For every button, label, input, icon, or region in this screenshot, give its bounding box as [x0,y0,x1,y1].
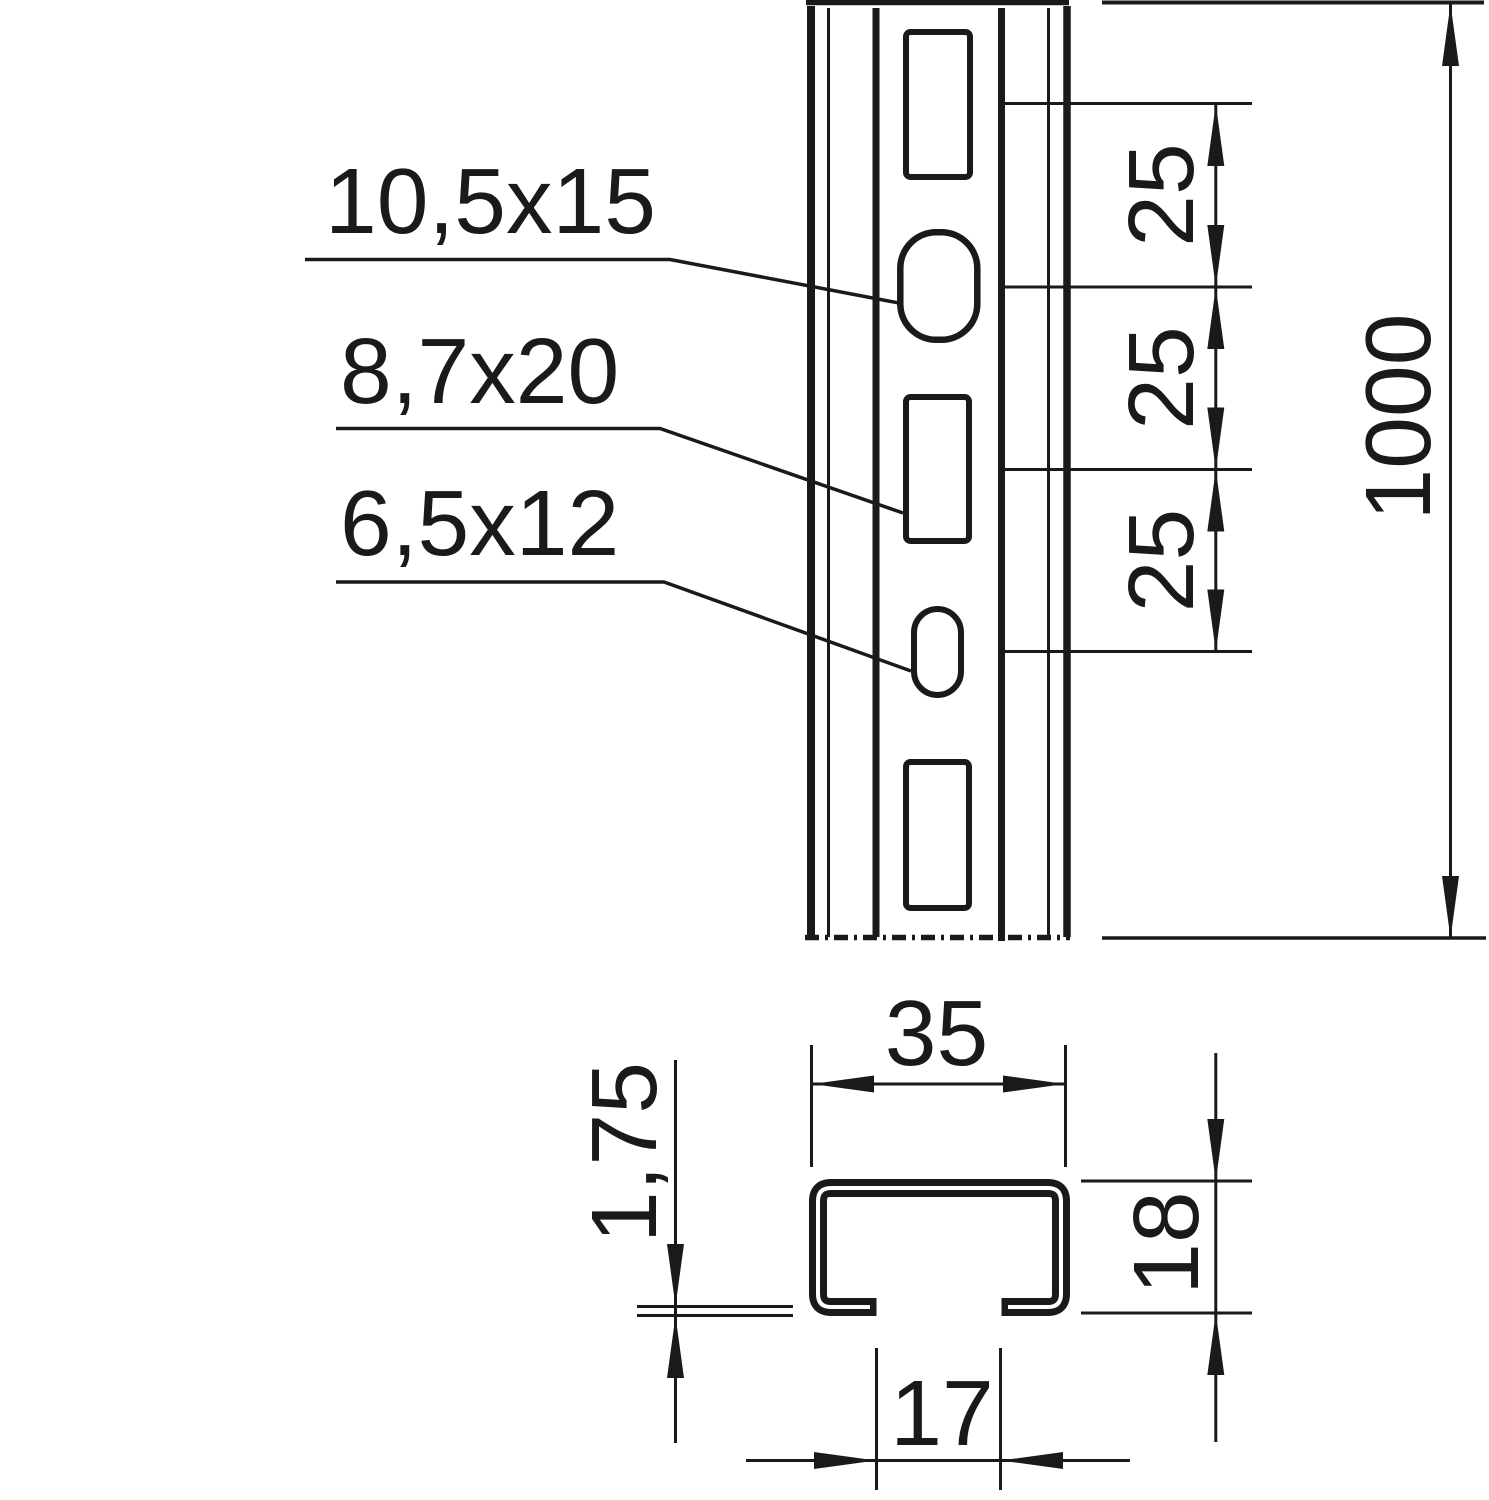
extension line 1000 bottom [1102,936,1486,940]
extension line 35 left [810,1045,813,1167]
extension line slot pitch 3 [1005,468,1252,471]
extension line slot pitch 2 [1005,286,1252,289]
arrow 18 dim up [1207,1313,1224,1375]
arrow 35 dim left [812,1076,874,1093]
rail top end face edge [806,0,1069,5]
svg-text:25: 25 [1109,509,1213,612]
slot oblong 10,5x15 [900,232,977,339]
arrow 25 dim up tip row2 [1207,287,1224,349]
extension line 1000 top [1102,1,1484,5]
arrow 1000 dim down [1442,876,1459,938]
dimension line 25 pitch [1214,104,1217,652]
leader line 8,7x20 [336,429,903,514]
slot rectangular 8,7x20 middle [906,397,969,541]
leader line 6,5x12 [336,582,911,671]
arrow 25 dim down tip row3 [1207,408,1224,470]
slot oblong 6,5x12 [914,609,961,695]
svg-text:6,5x12: 6,5x12 [340,471,619,575]
arrow 18 dim down [1207,1119,1224,1181]
svg-text:25: 25 [1109,143,1213,246]
dimension line 17 [746,1459,1130,1462]
extension line 17 right [999,1348,1002,1490]
arrow 1,75 dim down [667,1244,684,1306]
extension line 35 right [1064,1045,1067,1167]
svg-text:17: 17 [890,1361,993,1465]
rail bottom break chain line [805,935,1070,941]
cross-section inner white split line [818,1188,1061,1307]
arrow 25 dim down tip row4 [1207,590,1224,652]
rail left outer edge [807,6,815,937]
svg-text:10,5x15: 10,5x15 [325,149,656,253]
svg-text:18: 18 [1114,1191,1218,1294]
rail right top-face edge [998,8,1005,941]
slot rectangular 8,7x20 bottom [906,762,969,908]
dimension line 35 [812,1083,1066,1086]
extension line 1,75 upper [637,1305,793,1308]
leader line 10,5x15 [305,260,899,304]
rail left top-face edge [873,8,880,937]
extension line 18 top [1081,1180,1252,1183]
arrow 25 dim up tip row1 [1207,104,1224,166]
svg-text:8,7x20: 8,7x20 [340,319,619,423]
arrow 1000 dim up [1442,4,1459,66]
svg-text:35: 35 [885,981,988,1085]
dimension line 1,75 [674,1060,677,1443]
extension line slot pitch 4 [1005,650,1252,653]
arrow 25 dim up tip row3 [1207,470,1224,532]
rail right outer edge [1063,6,1071,937]
svg-text:25: 25 [1109,326,1213,429]
extension line slot pitch 1 [1005,102,1252,105]
extension line 18 bottom [1081,1312,1252,1315]
dimension line 1000 [1449,4,1452,939]
extension line 1,75 lower [637,1314,793,1317]
arrow 25 dim down tip row2 [1207,225,1224,287]
arrow 17 dim right-pointing [814,1452,876,1469]
rail left inner fold line [827,8,830,937]
cross-section C-profile outline [818,1188,1061,1307]
rail right inner fold line [1047,8,1050,937]
arrow 17 dim left-pointing [1001,1452,1063,1469]
slot rectangular 8,7x20 top [906,32,970,177]
svg-text:1000: 1000 [1346,314,1450,521]
extension line 17 left [875,1348,878,1490]
dimension line 18 [1214,1053,1217,1442]
arrow 1,75 dim up [667,1316,684,1378]
svg-text:1,75: 1,75 [572,1062,676,1243]
arrow 35 dim right [1003,1076,1065,1093]
